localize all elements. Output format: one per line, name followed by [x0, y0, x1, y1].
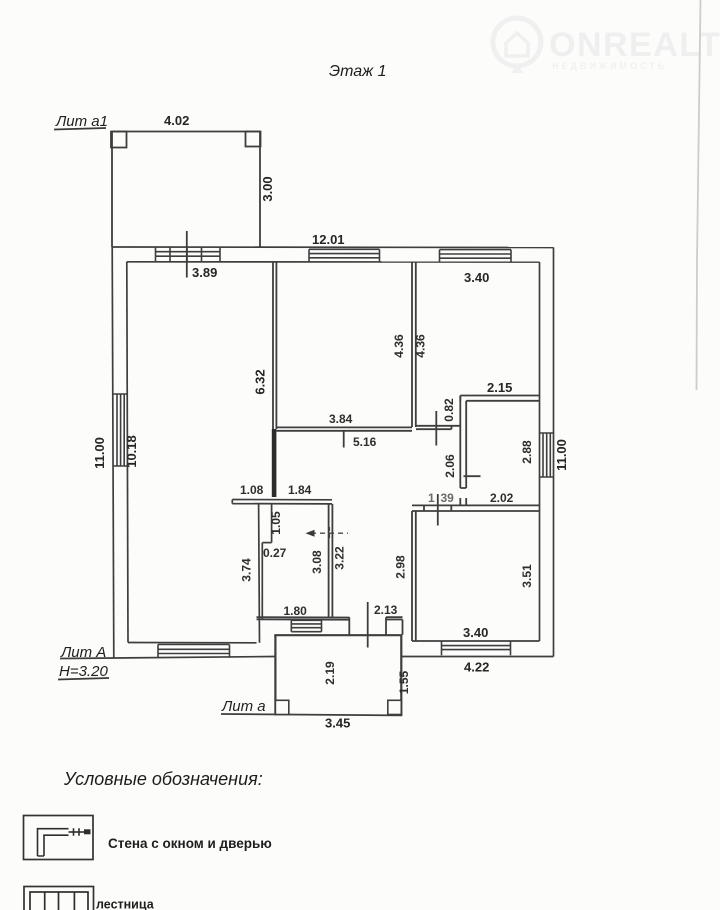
main inner wall: bottom-left segment [128, 642, 257, 644]
underline of Лит а1 [54, 128, 106, 130]
legend stairs symbol [30, 892, 88, 910]
svg-text:39: 39 [441, 491, 455, 505]
wall 0.82 segment (closet front) [416, 426, 460, 429]
svg-text:0.82: 0.82 [442, 398, 456, 422]
scanned page edge line [697, 0, 701, 390]
svg-text:Этаж 1: Этаж 1 [329, 63, 387, 80]
svg-text:2.06: 2.06 [443, 454, 457, 478]
main outer wall: bottom-right segment [402, 656, 554, 658]
annex a1 left post [111, 132, 127, 148]
svg-text:лестница: лестница [96, 898, 155, 910]
underline of Н=3.20 [58, 678, 109, 680]
svg-text:2.98: 2.98 [394, 555, 408, 579]
svg-text:2.02: 2.02 [490, 491, 514, 505]
svg-text:6.32: 6.32 [253, 369, 268, 394]
svg-text:1.80: 1.80 [284, 604, 308, 618]
san-block top wall double line [232, 500, 332, 504]
legend symbol door block [84, 829, 91, 834]
door dashes in san room [311, 532, 348, 534]
main inner wall: left [127, 262, 128, 643]
san-block west thick wall: right line [271, 504, 273, 543]
partition P1 (6.32 wall) double line [273, 262, 276, 429]
legend box 1 [24, 816, 94, 860]
porch left wall [274, 635, 276, 715]
svg-text:3.22: 3.22 [333, 546, 347, 570]
partition P2 double line (between middle and right top rooms) [412, 262, 416, 427]
window W1 on top wall (3.89) [156, 247, 221, 262]
svg-text:2.15: 2.15 [487, 380, 512, 395]
annex a1 right post [246, 132, 261, 147]
svg-text:3.51: 3.51 [520, 564, 534, 588]
svg-text:3.45: 3.45 [325, 716, 350, 731]
hall bottom wall right of door [386, 617, 403, 619]
svg-text:4.22: 4.22 [464, 660, 489, 675]
svg-text:3.40: 3.40 [464, 270, 489, 285]
svg-text:1.08: 1.08 [240, 483, 264, 497]
junction porch right wall to building [402, 620, 404, 635]
bottom-right room top wall double line [412, 505, 540, 511]
svg-text:3.40: 3.40 [463, 625, 488, 640]
porch bottom line with Лит а underline extension [221, 714, 402, 715]
svg-text:3.74: 3.74 [240, 558, 254, 582]
svg-text:0.27: 0.27 [263, 546, 287, 560]
main inner wall: top [127, 261, 540, 263]
dimension tick crossing 0.82 wall [435, 411, 437, 446]
svg-text:11.00: 11.00 [554, 439, 569, 471]
wall 2.15 double line [460, 396, 539, 401]
annex a1 top wall [112, 131, 260, 133]
svg-text:3.08: 3.08 [310, 550, 324, 574]
porch left post [275, 700, 288, 714]
watermark logo pin [493, 18, 541, 73]
svg-text:Лит А: Лит А [60, 644, 106, 661]
wall 2.06 double line (closet side) [460, 396, 466, 506]
annex a1 right wall [259, 131, 261, 247]
window on right wall [540, 433, 554, 477]
svg-text:ONREALT: ONREALT [549, 26, 720, 64]
main outer wall: bottom-left segment with Лит А underline extension [60, 657, 275, 659]
porch right wall [400, 635, 402, 715]
san-block west wall bottom cap (0.27 step) [262, 542, 271, 544]
legend wall-with-window-and-door symbol [38, 828, 85, 856]
svg-text:1.05: 1.05 [269, 511, 283, 535]
door jamb right (porch doorway) [385, 617, 387, 635]
window on left wall (between 11.00 / 10.18) [113, 394, 128, 466]
svg-text:2.13: 2.13 [374, 603, 398, 617]
porch right post [388, 700, 402, 714]
window/opening 1.39 in that wall [424, 505, 451, 511]
main inner wall: bottom-right segment [412, 640, 540, 642]
svg-text:Лит а: Лит а [221, 698, 266, 715]
dimension tick for 2.13 [367, 602, 369, 648]
svg-text:2.88: 2.88 [520, 440, 534, 464]
san-block west wall lower segment [261, 543, 263, 619]
svg-text:3.00: 3.00 [260, 176, 275, 201]
door jamb left (porch doorway) [348, 617, 350, 635]
svg-text:1.84: 1.84 [288, 483, 312, 497]
window W3 on top wall [440, 250, 512, 262]
door dash arrow [306, 530, 315, 537]
svg-text:11.00: 11.00 [92, 437, 107, 469]
annex a1 left wall [111, 131, 113, 247]
svg-text:5.16: 5.16 [353, 435, 377, 449]
svg-text:10.18: 10.18 [124, 435, 139, 468]
watermark house glyph [506, 33, 528, 56]
hall top wall P3 (5.16) double line [276, 427, 412, 430]
svg-text:3.84: 3.84 [329, 412, 353, 426]
main outer wall: right [553, 248, 555, 657]
porch top wall [274, 634, 402, 636]
main inner wall: right [539, 262, 541, 641]
svg-text:1: 1 [428, 491, 435, 505]
dimension tick for 5.16 [343, 431, 345, 448]
san-block west thick wall: left line [258, 504, 261, 643]
dimension tick 1.39 [437, 494, 439, 526]
window on bottom wall left [158, 645, 230, 658]
svg-text:Стена с окном и дверью: Стена с окном и дверью [108, 836, 272, 851]
dimension tick for 3.89 [186, 231, 188, 278]
svg-text:НЕДВИЖИМОСТЬ: НЕДВИЖИМОСТЬ [552, 61, 667, 71]
san-block east wall double line [329, 504, 333, 618]
svg-text:12.01: 12.01 [312, 232, 345, 247]
svg-text:4.36: 4.36 [414, 334, 428, 358]
svg-text:4.36: 4.36 [392, 334, 406, 358]
main outer wall: left [112, 247, 114, 658]
legend box 2 (stairs) [24, 887, 94, 910]
svg-text:1.55: 1.55 [397, 670, 411, 694]
bottom-right room left wall double line [412, 511, 416, 641]
dash tick in san room [329, 527, 331, 541]
window W2 on top wall [309, 249, 380, 262]
svg-text:4.02: 4.02 [164, 113, 189, 128]
san-block / hall bottom wall double line [257, 617, 350, 620]
svg-text:Условные обозначения:: Условные обозначения: [63, 769, 263, 789]
main outer wall: top [112, 246, 554, 249]
stairs box below 1.80 [291, 620, 321, 631]
svg-text:2.19: 2.19 [323, 661, 337, 685]
window on bottom wall right (3.40/4.22) [442, 641, 511, 655]
partition P1 lower thick segment [272, 429, 277, 497]
svg-text:3.89: 3.89 [192, 265, 217, 280]
dimension tick for 2.06 [464, 475, 481, 477]
